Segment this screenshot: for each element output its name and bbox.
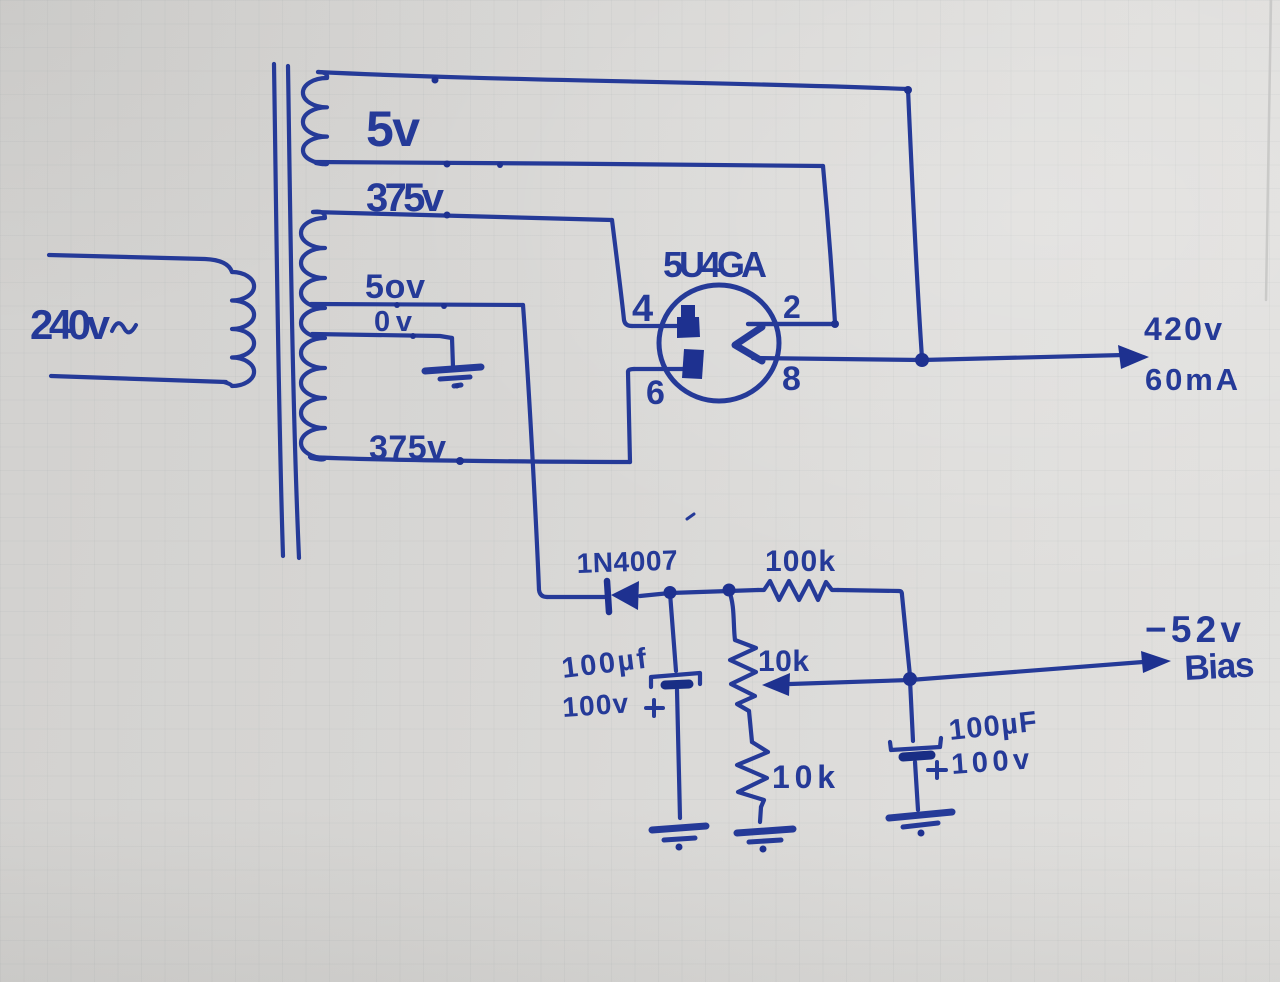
plus sign right cap	[928, 762, 946, 778]
10k potentiometer zigzag	[730, 640, 756, 711]
50v tap wire	[311, 304, 523, 305]
pen dot on 50v wire 2	[441, 303, 447, 309]
100uF right cap top plate	[890, 738, 941, 750]
tube 5U4GA envelope	[659, 285, 779, 401]
svg-text:100v: 100v	[950, 744, 1030, 781]
0v tap wire	[312, 334, 452, 338]
pen dot on 375v bottom wire	[456, 457, 464, 465]
5v winding bottom wire	[315, 162, 823, 166]
svg-text:100v: 100v	[561, 687, 629, 723]
svg-text:5ov: 5ov	[365, 268, 425, 306]
ground symbol (mid)	[737, 829, 793, 833]
svg-text:240v: 240v	[30, 301, 111, 348]
junction dot: output	[915, 353, 929, 367]
wire: 375v top down to pin 4	[612, 220, 632, 326]
bias: diode output bus	[640, 590, 758, 596]
100uF left cap branch wire	[670, 593, 676, 671]
filament arrow bottom line / output wire to junction	[753, 358, 922, 360]
wire: 375v bottom up to pin 6	[628, 369, 634, 462]
primary winding coil	[224, 272, 254, 386]
tilde after 240v	[112, 323, 136, 332]
ground symbol (0v)	[425, 367, 481, 371]
stray pen tick	[687, 514, 694, 519]
main secondary coil (375-50-0-375)	[301, 212, 325, 460]
filament arrowhead	[735, 327, 762, 361]
wire: 5v top to output junction (vertical)	[908, 89, 922, 358]
svg-text:10k: 10k	[772, 759, 835, 795]
transformer core right lamination line	[288, 66, 299, 558]
375v top wire	[313, 212, 612, 220]
420v arrowhead	[1118, 345, 1149, 369]
svg-text:375v: 375v	[369, 429, 446, 467]
pen dot on 5v top wire	[432, 77, 439, 84]
junction dot: bias	[903, 672, 917, 686]
bias arrowhead	[1141, 651, 1171, 673]
ground symbol (left)	[652, 826, 706, 830]
100uF right cap branch wire	[910, 680, 913, 741]
svg-text:60mA: 60mA	[1145, 362, 1238, 397]
svg-text:4: 4	[632, 288, 653, 330]
junction dot: cap branch	[664, 586, 677, 599]
pen dot on 50v wire	[394, 302, 400, 308]
ground dot left	[676, 844, 683, 851]
tube top anode plate	[677, 305, 700, 338]
wire: pot to lower 10k	[749, 711, 752, 742]
plus sign left cap	[646, 700, 663, 716]
svg-text:100k: 100k	[765, 545, 835, 578]
wire: 50v tap down to bias rectifier	[523, 305, 547, 597]
svg-text:1N4007: 1N4007	[576, 544, 678, 579]
svg-text:10k: 10k	[758, 645, 809, 678]
pen dot on 0v wire	[410, 333, 416, 339]
10k resistor zigzag	[737, 742, 768, 807]
pen dot on 375v top wire	[444, 212, 451, 219]
pen dot pin2 corner	[831, 320, 839, 328]
svg-text:Bias: Bias	[1183, 645, 1255, 688]
svg-text:420v: 420v	[1144, 311, 1222, 347]
svg-text:375v: 375v	[366, 176, 445, 220]
100uF left cap bottom plate	[665, 684, 689, 685]
output wire to 420v arrow	[922, 355, 1124, 360]
wire: into diode	[547, 595, 606, 599]
svg-text:8: 8	[782, 360, 801, 398]
wire: 5v bottom down to pin 2	[823, 166, 835, 323]
100uF left cap top plate	[651, 673, 700, 687]
bias output line	[790, 662, 1143, 684]
5v winding top wire	[318, 72, 908, 89]
ground symbol (right)	[889, 812, 952, 818]
junction dot: pot branch	[723, 584, 736, 597]
5v secondary coil	[303, 72, 327, 164]
pot wiper arrowhead	[762, 673, 790, 696]
wire: 0v down to ground	[452, 338, 453, 367]
100k resistor zigzag	[758, 581, 838, 600]
ground dot mid	[760, 846, 767, 853]
375v bottom wire	[310, 457, 630, 462]
wire: pin 6 lead	[634, 367, 684, 371]
transformer core left lamination line	[274, 64, 283, 556]
diode cathode bar	[607, 581, 609, 612]
svg-text:2: 2	[783, 289, 801, 325]
primary winding bottom wire	[51, 376, 226, 382]
svg-text:−52v: −52v	[1145, 609, 1241, 650]
ground dot 0v	[455, 384, 460, 389]
svg-text:100µf: 100µf	[560, 643, 649, 685]
pen dot corner 5v top	[904, 86, 912, 94]
tube bottom anode plate	[682, 349, 704, 379]
100uF right cap bottom plate	[903, 755, 931, 757]
wire: 10k to ground	[760, 807, 761, 822]
pen dot on 5v bottom wire 2	[497, 162, 503, 168]
wire: pin 4 lead	[632, 324, 678, 328]
10k pot branch wire	[729, 591, 735, 640]
filament arrow top line	[748, 322, 836, 326]
pen dot on 5v bottom wire	[444, 161, 451, 168]
svg-text:100µF: 100µF	[947, 706, 1038, 747]
diode 1N4007 triangle	[611, 581, 639, 610]
faint second-sheet edge top right	[1266, 0, 1271, 300]
wire: pin 2 lead	[748, 322, 835, 326]
svg-text:6: 6	[646, 374, 665, 412]
primary winding top wire	[49, 255, 232, 272]
ground dot right	[918, 830, 925, 837]
100uF left cap wire to ground	[677, 690, 680, 818]
100uF right cap wire to ground	[915, 762, 918, 810]
wire: 100k to right corner and down	[838, 590, 910, 676]
svg-text:5v: 5v	[366, 101, 420, 157]
svg-text:5U4GA: 5U4GA	[663, 244, 767, 285]
